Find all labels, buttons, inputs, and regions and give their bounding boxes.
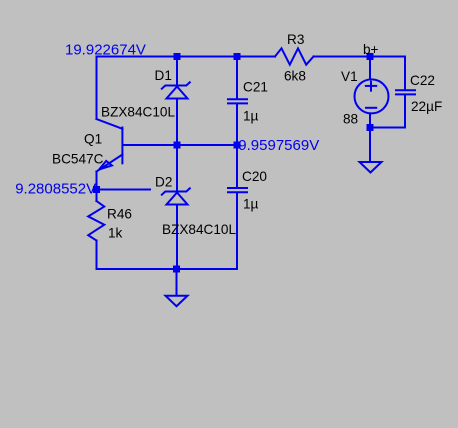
- svg-text:b+: b+: [363, 42, 379, 57]
- wire D1 bottom: [176, 99, 178, 146]
- resistor R46: [88, 201, 104, 241]
- node top rail D1 junction: [174, 53, 181, 60]
- node middle rail D junction: [174, 142, 181, 149]
- wire top rail right: [314, 57, 406, 90]
- node top rail C21 junction: [234, 53, 241, 60]
- svg-text:Q1: Q1: [84, 132, 102, 147]
- ground right: [360, 128, 382, 173]
- wire D2 bottom: [176, 205, 178, 270]
- wire D2 top: [176, 145, 178, 192]
- svg-text:C20: C20: [242, 169, 267, 184]
- wire middle rail: [123, 144, 237, 146]
- svg-text:1µ: 1µ: [243, 109, 259, 124]
- resistor R3: [275, 48, 314, 64]
- wire emitter stub: [97, 189, 151, 191]
- svg-text:C21: C21: [243, 80, 268, 95]
- svg-text:19.922674V: 19.922674V: [65, 42, 146, 59]
- svg-text:1k: 1k: [108, 225, 123, 240]
- capacitor C21: [228, 99, 247, 103]
- svg-text:V1: V1: [341, 69, 358, 84]
- svg-text:9.9597569V: 9.9597569V: [238, 137, 319, 154]
- svg-text:R3: R3: [287, 32, 304, 47]
- svg-text:BZX84C10L: BZX84C10L: [101, 105, 175, 120]
- svg-text:BZX84C10L: BZX84C10L: [162, 222, 236, 237]
- diode D1: [162, 82, 190, 98]
- wire C20 top: [236, 145, 238, 187]
- voltage source V1: [355, 57, 389, 128]
- capacitor C20: [228, 188, 247, 192]
- diode D2: [162, 188, 190, 204]
- svg-text:R46: R46: [107, 206, 132, 221]
- svg-text:9.2808552V: 9.2808552V: [15, 181, 96, 198]
- svg-text:D2: D2: [155, 175, 172, 190]
- node V1 bottom junction: [367, 124, 374, 131]
- wire emitter: [96, 172, 98, 202]
- capacitor C22: [396, 90, 415, 94]
- node emitter junction: [93, 186, 100, 193]
- wire top rail left: [97, 57, 276, 120]
- svg-text:C22: C22: [410, 73, 435, 88]
- svg-text:6k8: 6k8: [284, 69, 306, 84]
- ground left: [166, 269, 188, 306]
- wire bottom rail: [97, 268, 238, 270]
- wire C21 top: [236, 57, 238, 99]
- node bottom rail junction: [173, 266, 180, 273]
- transistor Q1: [97, 119, 123, 172]
- svg-text:BC547C: BC547C: [52, 151, 104, 166]
- svg-text:1µ: 1µ: [243, 197, 259, 212]
- svg-text:88: 88: [343, 112, 358, 127]
- node middle rail C junction: [234, 142, 241, 149]
- wire C21 bottom: [236, 104, 238, 145]
- wire C20 bottom: [236, 193, 238, 269]
- svg-text:22µF: 22µF: [411, 99, 442, 114]
- wire C22 bottom: [371, 95, 405, 127]
- wire D1 top: [176, 57, 178, 86]
- node b+ junction: [367, 53, 374, 60]
- wire R46 bottom: [96, 241, 98, 270]
- svg-text:D1: D1: [155, 68, 172, 83]
